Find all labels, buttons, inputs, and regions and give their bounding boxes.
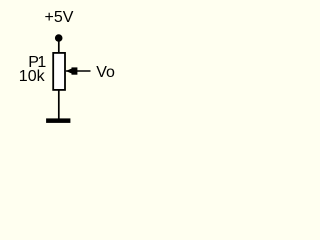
wiper arrowhead tail block — [72, 67, 78, 74]
wire from potentiometer bottom to ground — [58, 90, 60, 119]
background — [0, 0, 133, 136]
svg-text:10k: 10k — [19, 68, 46, 85]
wire from +5V dot to potentiometer top — [58, 41, 60, 54]
node +5V terminal dot — [55, 34, 63, 42]
wiper arrowhead — [66, 68, 72, 74]
svg-text:+5V: +5V — [45, 9, 74, 26]
potentiometer P1 body — [53, 53, 65, 90]
ground bar — [46, 118, 70, 123]
svg-text:Vo: Vo — [96, 64, 115, 81]
wiper wire — [66, 70, 91, 72]
